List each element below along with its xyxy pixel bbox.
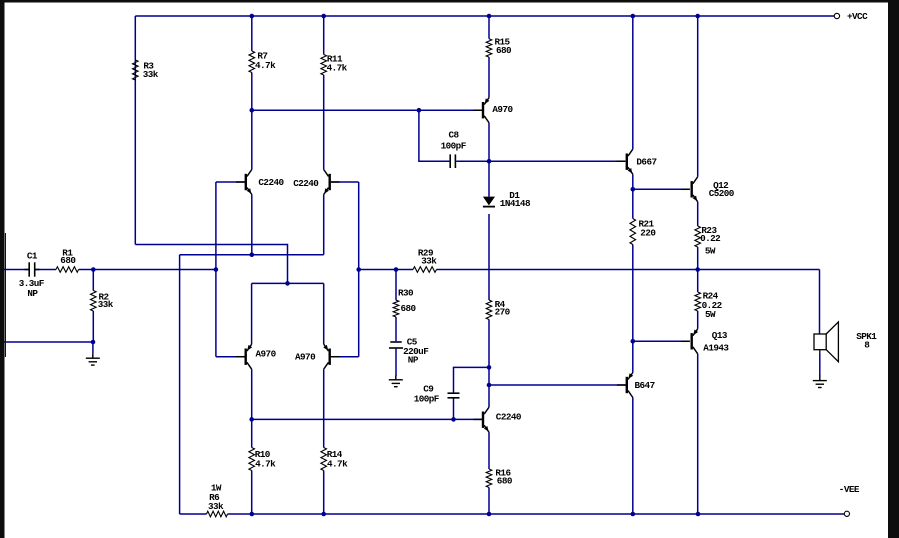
junction pair1 base / input <box>214 267 219 272</box>
junction C2240 Q1 emitter / tail bus <box>250 252 255 257</box>
transistor Q C2240 driver <box>482 412 484 428</box>
resistor R29 33k <box>413 267 437 273</box>
svg-text:C2240: C2240 <box>258 177 284 188</box>
wire R7 column upper <box>251 16 253 51</box>
svg-text:NP: NP <box>27 288 38 299</box>
junction Q12 / +VCC rail <box>695 14 700 19</box>
speaker SPK1 8 <box>814 334 826 350</box>
junction B647 / -VEE rail <box>631 512 636 517</box>
svg-text:680: 680 <box>497 475 513 486</box>
junction R10 / -VEE rail <box>250 512 255 517</box>
wire B647 collector to -VEE rail <box>632 398 634 515</box>
wire -VEE bottom rail <box>228 513 845 515</box>
resistor R6 33k 1W <box>207 511 228 517</box>
junction C8 branch / VAS base line <box>417 108 422 113</box>
svg-text:220: 220 <box>640 228 656 239</box>
junction R14 / -VEE rail <box>321 512 326 517</box>
wire pair1 base vertical <box>215 182 217 357</box>
svg-text:270: 270 <box>495 307 511 318</box>
transistor Q B647 <box>626 377 628 393</box>
svg-text:4.7k: 4.7k <box>255 60 276 71</box>
svg-text:+VCC: +VCC <box>847 11 868 22</box>
wire input line to C1 <box>5 269 29 271</box>
wire C1 to R1 <box>35 269 56 271</box>
wire C2240 Q1 base stub <box>236 181 245 183</box>
svg-text:33k: 33k <box>208 501 224 512</box>
resistor R7 4.7k <box>249 51 255 73</box>
junction R3 / PNP emitter bus <box>285 281 290 286</box>
wire Q12 emitter to R23 <box>697 202 699 226</box>
junction R30 / feedback line <box>394 267 399 272</box>
wire C8 branch from VAS base <box>419 110 450 161</box>
svg-text:33k: 33k <box>98 299 114 310</box>
wire C9 bottom branch <box>453 399 455 420</box>
wire NPN pair emitter bus (line B) <box>180 254 324 256</box>
junction output node R23/R24 <box>695 267 700 272</box>
wire C1 right stub <box>35 269 39 271</box>
wire C2240 Q2 base stub <box>331 181 340 183</box>
resistor R2 33k <box>91 291 97 312</box>
transistor Q A970 #1 (PNP diff pair) <box>245 349 247 365</box>
wire A970 collector to C8 node <box>488 123 490 162</box>
transistor Q C2240 #1 (NPN diff pair) <box>245 174 247 190</box>
junction R7 / VAS base line <box>250 108 255 113</box>
resistor R30 680 <box>393 300 399 317</box>
wire Q13 base line <box>633 340 690 342</box>
svg-text:A970: A970 <box>256 349 277 360</box>
wire speaker ground stub <box>819 354 821 376</box>
wire A970 Q2 base stub <box>331 356 340 358</box>
wire feedback node to R29 <box>359 269 413 271</box>
svg-text:5W: 5W <box>705 245 716 256</box>
wire B647 base stub <box>617 384 626 386</box>
junction A970 Q1 collector / R10 / driver base <box>249 417 254 422</box>
wire B647 base line <box>489 384 626 386</box>
resistor R11 4.7k <box>321 55 327 76</box>
resistor R1 680 <box>56 267 79 273</box>
wire VAS base stub <box>474 109 483 111</box>
wire from R3 to PNP emitter node <box>135 245 287 284</box>
wire PNP pair emitter bus (line D) <box>252 282 324 284</box>
wire R2 bottom <box>92 311 94 342</box>
wire R23 to output node <box>697 247 699 270</box>
svg-text:33k: 33k <box>143 69 159 80</box>
svg-text:680: 680 <box>401 303 417 314</box>
wire R16 to -VEE rail <box>488 488 490 515</box>
resistor R14 4.7k <box>321 448 327 471</box>
transistor Q A970 #2 (PNP diff pair) <box>329 349 331 365</box>
resistor R3 33k <box>133 60 139 80</box>
wire R4 to driver collector <box>488 320 490 408</box>
wire Q12 base line <box>633 188 690 190</box>
junction R2 / ground line <box>91 340 96 345</box>
wire bias node to B647 emitter <box>632 341 634 372</box>
svg-text:A970: A970 <box>295 352 316 363</box>
junction R7 / +VCC rail <box>250 14 255 19</box>
svg-text:680: 680 <box>60 255 76 266</box>
transistor Q D667 <box>626 154 628 170</box>
svg-text:0.22: 0.22 <box>700 233 721 244</box>
wire A970 Q1 base stub <box>236 356 245 358</box>
svg-text:4.7k: 4.7k <box>327 458 348 469</box>
wire C2240 Q1 base <box>216 181 245 183</box>
wire C9 top branch <box>454 367 490 392</box>
resistor R15 680 <box>486 39 492 57</box>
wire R10 to -VEE rail <box>251 471 253 515</box>
wire C2240 Q2 emitter riser <box>323 195 325 255</box>
capacitor C5 220uF NP <box>390 341 401 343</box>
svg-text:-VEE: -VEE <box>839 484 860 495</box>
svg-text:R30: R30 <box>398 288 414 299</box>
wire +VCC top power rail <box>135 15 834 17</box>
svg-text:NP: NP <box>408 355 419 366</box>
wire output drop to speaker <box>819 270 821 335</box>
wire R21 to Q13 base node <box>632 245 634 342</box>
resistor R16 680 <box>486 469 492 488</box>
wire C2240 Q1 emitter drop <box>251 195 253 255</box>
svg-text:A1943: A1943 <box>703 343 729 354</box>
transistor Q12 C5200 <box>691 181 693 197</box>
resistor R21 220 <box>630 219 636 245</box>
svg-text:B647: B647 <box>635 380 655 391</box>
wire D667 emitter to bias node <box>632 174 634 189</box>
svg-text:C8: C8 <box>449 130 460 141</box>
wire R21 top stub <box>632 189 634 218</box>
wire Q12 base stub <box>681 188 690 190</box>
wire R3 column from +VCC rail <box>134 16 136 245</box>
wire D667 collector column <box>632 16 634 149</box>
svg-text:D667: D667 <box>636 156 656 167</box>
junction Q13 / -VEE rail <box>696 512 701 517</box>
svg-text:1N4148: 1N4148 <box>500 198 531 209</box>
wire R2 ground stub <box>92 342 94 354</box>
capacitor C9 100pF <box>448 392 460 394</box>
wire tail to R6 <box>179 255 181 514</box>
wire R11 column upper <box>323 16 325 55</box>
wire driver emitter to R16 <box>488 432 490 469</box>
ground under speaker <box>819 350 821 355</box>
junction D667 / +VCC rail <box>631 14 636 19</box>
svg-text:5W: 5W <box>705 309 716 320</box>
wire R30 top <box>395 270 397 301</box>
wire D667 base line <box>489 160 625 162</box>
wire -VEE bottom rail left <box>180 513 207 515</box>
junction R16 / -VEE rail <box>487 512 492 517</box>
wire R7 column to C2240 collector <box>251 73 253 170</box>
wire R11 column to C2240 collector <box>323 75 325 170</box>
junction C8 / D667 base node <box>487 159 492 164</box>
wire A970 Q2 emitter drop <box>323 283 325 344</box>
svg-text:A970: A970 <box>492 104 513 115</box>
wire ground return line <box>5 341 94 343</box>
diode D1 1N4148 <box>483 197 495 206</box>
resistor R23 0.22 5W <box>695 226 701 247</box>
wire VAS base line <box>252 109 482 111</box>
wire R15 to A970 emitter <box>488 57 490 98</box>
resistor R4 270 <box>486 300 492 320</box>
wire driver base line <box>252 418 482 420</box>
junction D667 emitter / R21 / Q12 base <box>631 187 636 192</box>
wire R14 to -VEE rail <box>323 471 325 515</box>
wire A970 Q1 collector to R10 <box>251 369 253 447</box>
wire C2240 Q2 base <box>331 181 359 183</box>
wire A970 Q2 base <box>331 356 359 358</box>
wire C8 to main column <box>456 160 489 162</box>
svg-text:4.7k: 4.7k <box>255 458 276 469</box>
junction R15 / +VCC rail <box>487 14 492 19</box>
wire A970 Q1 emitter drop <box>251 283 253 344</box>
junction C9 top / main column <box>487 365 492 370</box>
wire R1 to input node <box>79 269 94 271</box>
wire A970 Q1 base <box>216 356 245 358</box>
svg-text:33k: 33k <box>421 255 437 266</box>
transistor Q13 A1943 <box>691 333 693 349</box>
wire R2 top <box>92 270 94 291</box>
svg-text:C5200: C5200 <box>709 188 735 199</box>
junction R11 / +VCC rail <box>321 14 326 19</box>
wire D1 to R4 <box>488 214 490 300</box>
svg-text:Q13: Q13 <box>712 330 728 341</box>
junction C9 bottom / driver base line <box>451 417 456 422</box>
wire R24 to Q13 emitter <box>697 311 699 329</box>
resistor R10 4.7k <box>249 448 255 471</box>
junction pair2 base / feedback <box>356 267 361 272</box>
wire input node to diff pair base <box>93 269 216 271</box>
svg-text:4.7k: 4.7k <box>327 63 348 74</box>
wire Q12 collector column <box>697 16 699 177</box>
wire output node to R24 <box>697 270 699 293</box>
capacitor C1 3.3uF NP <box>28 262 30 276</box>
wire Q13 collector to -VEE rail <box>697 354 699 514</box>
wire driver base stub <box>474 418 483 420</box>
wire pair2 base vertical <box>358 182 360 357</box>
terminal +VCC <box>834 13 839 18</box>
svg-text:100pF: 100pF <box>414 394 440 405</box>
transistor Q C2240 #2 (NPN diff pair) <box>329 174 331 190</box>
ground under R2 <box>92 354 94 358</box>
wire C1 left stub <box>25 269 29 271</box>
wire C8 node to D1 <box>488 161 490 197</box>
svg-text:C2240: C2240 <box>496 412 522 423</box>
svg-text:100pF: 100pF <box>441 140 467 151</box>
wire R29 to output <box>437 269 820 271</box>
capacitor C8 100pF <box>449 154 451 168</box>
wire D667 base stub <box>617 160 626 162</box>
svg-text:C1: C1 <box>27 250 38 261</box>
resistor R24 0.22 5W <box>695 292 701 311</box>
wire A970 Q2 collector to R14 <box>323 369 325 447</box>
wire R15 top <box>488 16 490 39</box>
wire R30 to C5 <box>395 317 397 341</box>
transistor U A970 VAS <box>482 102 484 118</box>
junction R21 / Q13 base node <box>631 339 636 344</box>
ground under C5 <box>395 376 397 380</box>
junction node input R1/R2 <box>91 267 96 272</box>
wire C5 to ground <box>395 349 397 376</box>
svg-text:680: 680 <box>496 45 512 56</box>
svg-text:C2240: C2240 <box>293 178 319 189</box>
junction B647 base / main column <box>487 383 492 388</box>
terminal -VEE <box>844 511 849 516</box>
wire Q13 base stub <box>681 340 690 342</box>
